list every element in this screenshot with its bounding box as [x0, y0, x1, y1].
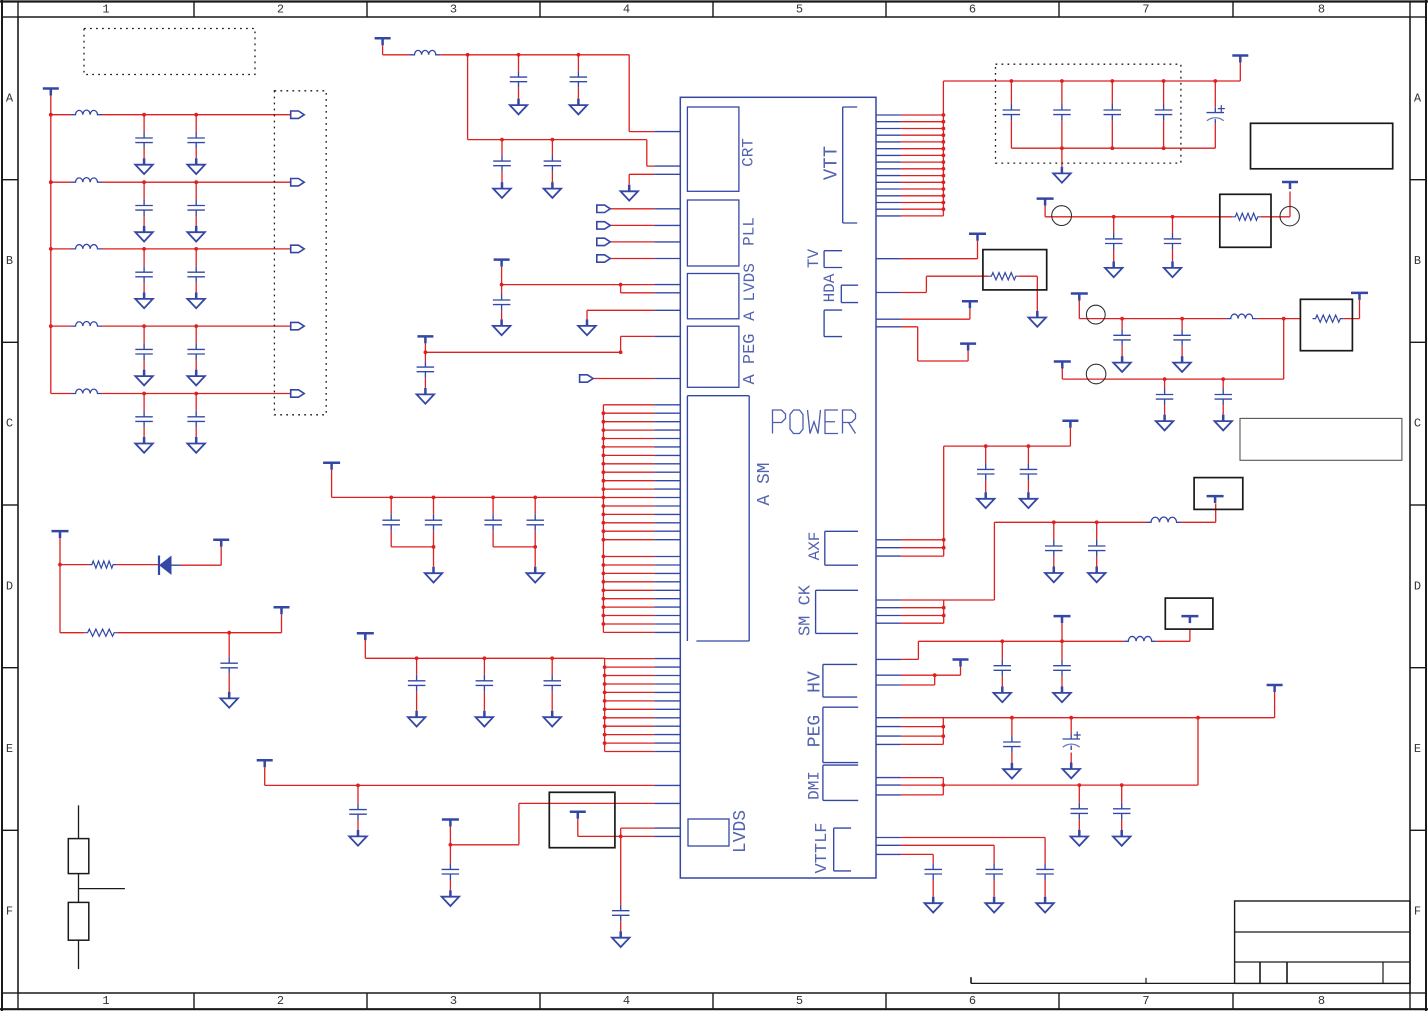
svg-text:F: F [1414, 905, 1421, 919]
svg-text:1: 1 [102, 994, 109, 1008]
svg-text:SM CK: SM CK [797, 584, 816, 636]
svg-text:PLL: PLL [741, 217, 759, 246]
svg-text:VTT: VTT [821, 146, 843, 180]
svg-text:7: 7 [1142, 3, 1149, 17]
svg-text:6: 6 [969, 994, 976, 1008]
svg-text:1: 1 [102, 3, 109, 17]
svg-text:4: 4 [623, 3, 630, 17]
svg-text:DMI: DMI [806, 771, 824, 800]
svg-text:3: 3 [450, 994, 457, 1008]
svg-text:4: 4 [623, 994, 630, 1008]
svg-text:A PEG: A PEG [741, 333, 760, 384]
svg-text:8: 8 [1318, 994, 1325, 1008]
svg-text:PEG: PEG [806, 715, 826, 747]
svg-text:6: 6 [969, 3, 976, 17]
svg-text:HV: HV [806, 671, 826, 693]
svg-text:E: E [1414, 742, 1421, 756]
svg-text:D: D [1414, 579, 1421, 593]
svg-text:A: A [6, 91, 14, 105]
svg-text:D: D [6, 579, 13, 593]
svg-text:2: 2 [277, 3, 284, 17]
svg-text:HDA: HDA [821, 273, 839, 302]
svg-text:E: E [6, 742, 13, 756]
svg-text:5: 5 [796, 3, 803, 17]
svg-text:AXF: AXF [806, 532, 824, 561]
svg-text:5: 5 [796, 994, 803, 1008]
svg-text:3: 3 [450, 3, 457, 17]
svg-text:C: C [6, 417, 13, 431]
svg-text:A: A [1414, 91, 1422, 105]
svg-text:LVDS: LVDS [731, 810, 751, 853]
svg-text:B: B [1414, 254, 1421, 268]
svg-text:A LVDS: A LVDS [741, 263, 759, 321]
svg-text:B: B [6, 254, 13, 268]
svg-text:VTTLF: VTTLF [813, 822, 832, 873]
svg-text:7: 7 [1142, 994, 1149, 1008]
svg-text:F: F [6, 905, 13, 919]
svg-text:A SM: A SM [755, 462, 775, 505]
svg-text:8: 8 [1318, 3, 1325, 17]
svg-text:C: C [1414, 417, 1421, 431]
svg-text:TV: TV [805, 249, 823, 269]
svg-text:CRT: CRT [740, 138, 758, 167]
svg-text:2: 2 [277, 994, 284, 1008]
